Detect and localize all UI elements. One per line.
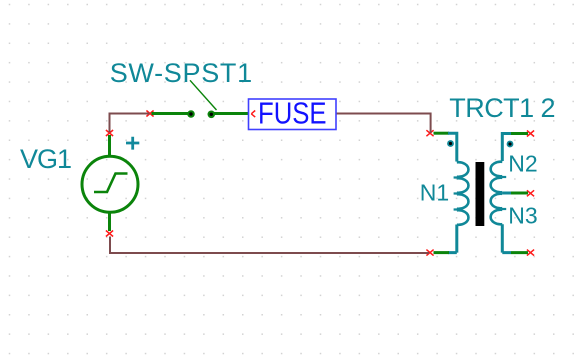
generator VG1 top pin [108,135,111,156]
pin cross VG1 bottom [106,231,113,237]
coil N2 junction nub [502,176,506,178]
svg-text:VG1: VG1 [20,144,71,174]
svg-text:N3: N3 [508,203,537,229]
svg-text:FUSE: FUSE [258,96,327,131]
pin cross switch left [146,111,153,117]
pin cross fuse left (half) [251,111,255,118]
generator VG1 ramp symbol [94,174,128,193]
transformer secondary coil N3 [491,194,503,225]
transformer left winding lower vertical [448,225,457,253]
pin cross transformer N2 top [527,131,534,137]
transformer right top lead [511,132,528,135]
transformer primary coil N1 [457,162,469,225]
transformer secondary coil N2 [491,162,503,193]
transformer TRCT1 left winding lead top [434,132,450,135]
pin cross transformer top-left [426,130,433,136]
pin cross transformer mid tap [527,190,534,196]
transformer right lower vertical [502,224,511,252]
wire bottom-left vertical [109,237,111,255]
svg-text:TRCT1 2: TRCT1 2 [449,93,555,123]
pin cross transformer bottom-left [426,250,433,256]
svg-text:N1: N1 [420,180,449,206]
svg-text:SW-SPST1: SW-SPST1 [110,58,253,88]
transformer primary polarity dot [447,140,454,147]
wire top-left horizontal [110,113,150,115]
generator VG1 circle [82,156,138,212]
transformer secondary polarity dot [507,141,514,148]
wire bottom bus [110,252,429,254]
fuse F box [249,99,337,130]
wire FUSE to transformer corner [336,113,431,134]
coil N3 junction nub [502,208,506,210]
transformer core [476,162,485,226]
plus polarity mark [126,137,139,150]
switch SW-SPST1 lever [190,80,217,110]
svg-text:N2: N2 [508,151,537,177]
transformer right bottom lead [511,251,528,254]
pin cross VG1 top [106,111,534,256]
coil N1 junction nubs [454,178,457,210]
switch SW-SPST1 left lead [152,112,189,115]
generator VG1 bottom pin [108,213,111,231]
transformer left winding lead bottom [434,251,450,254]
transformer mid tap [502,192,511,195]
switch SW-SPST1 right lead [214,112,249,115]
pin cross transformer bottom-right [527,250,534,256]
switch left contact dot [187,110,195,118]
wire top-left vertical to VG1 [109,113,111,133]
switch right contact dot [208,111,216,119]
